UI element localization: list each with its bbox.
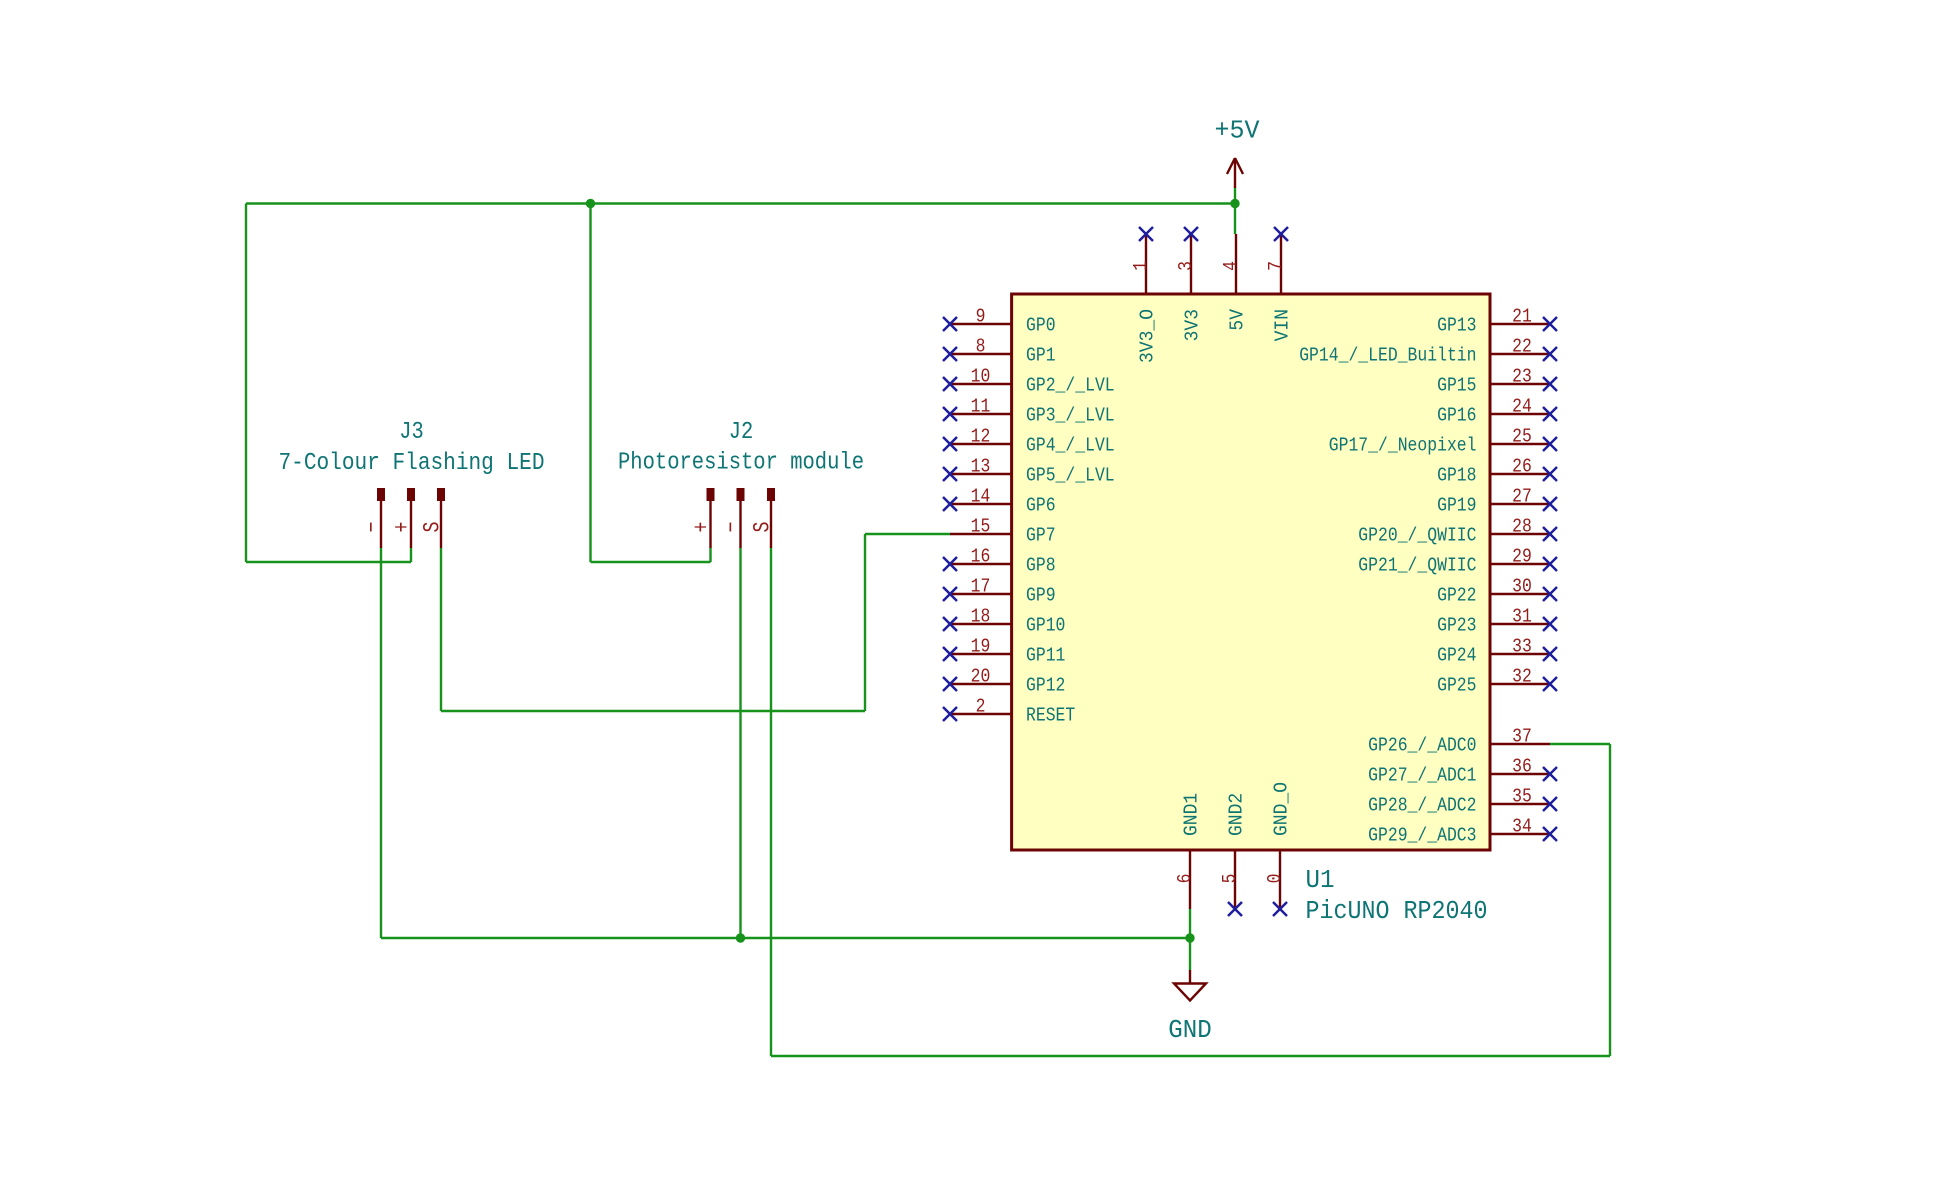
svg-text:32: 32: [1512, 666, 1532, 688]
svg-text:26: 26: [1512, 456, 1532, 478]
svg-text:6: 6: [1174, 874, 1196, 884]
svg-text:17: 17: [971, 576, 991, 598]
wire right vertical: [1609, 744, 1611, 1056]
svg-text:15: 15: [971, 516, 991, 538]
U1 pin 36 GP27_/_ADC1 (right lower): [1368, 756, 1557, 787]
op-amp U1 body rectangle PicUNO RP2040: [1012, 294, 1490, 850]
U1 pin 3 3V3 (top): [1175, 227, 1204, 341]
U1 pin 22 GP14_/_LED_Builtin (right): [1299, 336, 1557, 367]
junction GND1 on GND bus: [1185, 933, 1194, 942]
U1 pin 11 GP3_/_LVL (left): [943, 396, 1115, 427]
U1 pin 21 GP13 (right): [1437, 306, 1557, 337]
svg-text:GP10: GP10: [1026, 615, 1065, 637]
svg-text:5: 5: [1219, 874, 1241, 884]
U1 pin 12 GP4_/_LVL (left): [943, 426, 1115, 457]
U1 pin 15 GP7 (left): [950, 516, 1056, 547]
ground symbol GND: [1174, 970, 1206, 1001]
svg-text:GP22: GP22: [1437, 585, 1476, 607]
svg-text:24: 24: [1512, 396, 1532, 418]
wire GND bus horizontal: [381, 937, 1190, 939]
junction at 5V pin: [1230, 199, 1239, 208]
wire J3 S vertical: [440, 548, 442, 711]
svg-text:GP6: GP6: [1026, 495, 1056, 517]
svg-text:21: 21: [1512, 306, 1532, 328]
svg-text:3V3_O: 3V3_O: [1137, 309, 1159, 363]
U1 pin 28 GP20_/_QWIIC (right): [1358, 516, 1557, 547]
U1 pin 17 GP9 (left): [943, 576, 1056, 607]
U1 pin 30 GP22 (right): [1437, 576, 1557, 607]
svg-text:GP14_/_LED_Builtin: GP14_/_LED_Builtin: [1299, 345, 1476, 367]
svg-text:10: 10: [971, 366, 991, 388]
svg-text:11: 11: [971, 396, 991, 418]
svg-text:GP26_/_ADC0: GP26_/_ADC0: [1368, 735, 1476, 757]
svg-text:GP20_/_QWIIC: GP20_/_QWIIC: [1358, 525, 1476, 547]
U1 pin 31 GP23 (right): [1437, 606, 1557, 637]
svg-text:GND1: GND1: [1181, 793, 1203, 836]
svg-text:22: 22: [1512, 336, 1532, 358]
svg-text:3: 3: [1175, 261, 1197, 271]
svg-text:37: 37: [1512, 726, 1532, 748]
svg-text:3V3: 3V3: [1182, 309, 1204, 341]
svg-text:28: 28: [1512, 516, 1532, 538]
svg-text:23: 23: [1512, 366, 1532, 388]
U1 pin 13 GP5_/_LVL (left): [943, 456, 1115, 487]
svg-text:1: 1: [1130, 261, 1152, 271]
svg-text:7-Colour Flashing LED: 7-Colour Flashing LED: [279, 450, 545, 477]
connector J2 pin +: [689, 488, 715, 548]
svg-text:S: S: [750, 522, 776, 533]
svg-text:35: 35: [1512, 786, 1532, 808]
U1 pin 20 GP12 (left): [943, 666, 1065, 697]
connector J3 pin +: [390, 488, 416, 548]
wire J2+ stub: [709, 548, 711, 562]
U1 pin 7 VIN (top): [1265, 227, 1294, 341]
U1 pin 25 GP17_/_Neopixel (right): [1329, 426, 1557, 457]
U1 pin 35 GP28_/_ADC2 (right lower): [1368, 786, 1557, 817]
svg-text:18: 18: [971, 606, 991, 628]
svg-text:GP21_/_QWIIC: GP21_/_QWIIC: [1358, 555, 1476, 577]
junction J2- on GND bus: [736, 933, 745, 942]
svg-text:33: 33: [1512, 636, 1532, 658]
svg-text:0: 0: [1264, 874, 1286, 884]
svg-text:VIN: VIN: [1272, 309, 1294, 341]
U1 pin 1 3V3_O (top): [1130, 227, 1159, 363]
U1 pin 24 GP16 (right): [1437, 396, 1557, 427]
U1 pin 4 5V (top): [1220, 234, 1249, 331]
U1 pin 0 GND_O (bottom): [1264, 782, 1293, 916]
svg-text:GP1: GP1: [1026, 345, 1056, 367]
svg-text:27: 27: [1512, 486, 1532, 508]
svg-text:13: 13: [971, 456, 991, 478]
svg-text:19: 19: [971, 636, 991, 658]
svg-text:30: 30: [1512, 576, 1532, 598]
svg-text:34: 34: [1512, 816, 1532, 838]
U1 pin 26 GP18 (right): [1437, 456, 1557, 487]
svg-text:J3: J3: [399, 419, 424, 446]
svg-text:GP2_/_LVL: GP2_/_LVL: [1026, 375, 1115, 397]
U1 pin 19 GP11 (left): [943, 636, 1065, 667]
svg-text:GP8: GP8: [1026, 555, 1056, 577]
U1 pin 32 GP25 (right): [1437, 666, 1557, 697]
svg-text:GP5_/_LVL: GP5_/_LVL: [1026, 465, 1115, 487]
U1 pin 23 GP15 (right): [1437, 366, 1557, 397]
svg-text:GP25: GP25: [1437, 675, 1476, 697]
svg-text:GP9: GP9: [1026, 585, 1056, 607]
wire +5V to 5V pin: [1234, 188, 1236, 234]
svg-text:GND: GND: [1168, 1016, 1212, 1045]
connector J3 pin −: [360, 488, 386, 548]
U1 pin 29 GP21_/_QWIIC (right): [1358, 546, 1557, 577]
svg-text:GND2: GND2: [1226, 793, 1248, 836]
svg-text:7: 7: [1265, 261, 1287, 271]
svg-text:−: −: [360, 522, 386, 533]
power symbol +5V: [1227, 158, 1243, 188]
wire bottom horizontal: [771, 1055, 1610, 1057]
svg-text:36: 36: [1512, 756, 1532, 778]
U1 pin 34 GP29_/_ADC3 (right lower): [1368, 816, 1557, 847]
svg-text:GP4_/_LVL: GP4_/_LVL: [1026, 435, 1115, 457]
connector J2 pin S: [750, 488, 776, 548]
U1 pin 5 GND2 (bottom): [1219, 793, 1248, 916]
svg-text:20: 20: [971, 666, 991, 688]
connector J3 pin S: [420, 488, 446, 548]
svg-text:29: 29: [1512, 546, 1532, 568]
svg-text:GP23: GP23: [1437, 615, 1476, 637]
svg-text:GP15: GP15: [1437, 375, 1476, 397]
U1 pin 14 GP6 (left): [943, 486, 1056, 517]
svg-text:GND_O: GND_O: [1271, 782, 1293, 836]
svg-text:GP19: GP19: [1437, 495, 1476, 517]
U1 pin 8 GP1 (left): [943, 336, 1056, 367]
U1 pin 10 GP2_/_LVL (left): [943, 366, 1115, 397]
svg-text:Photoresistor module: Photoresistor module: [618, 450, 864, 477]
svg-text:J2: J2: [729, 419, 754, 446]
wire J3- vertical: [380, 548, 382, 938]
svg-text:GP29_/_ADC3: GP29_/_ADC3: [1368, 825, 1476, 847]
svg-text:GP11: GP11: [1026, 645, 1065, 667]
svg-text:GP27_/_ADC1: GP27_/_ADC1: [1368, 765, 1476, 787]
svg-text:−: −: [719, 522, 745, 533]
svg-text:5V: 5V: [1227, 308, 1249, 330]
svg-text:GP7: GP7: [1026, 525, 1056, 547]
svg-text:9: 9: [976, 306, 986, 328]
svg-text:GP28_/_ADC2: GP28_/_ADC2: [1368, 795, 1476, 817]
wire GP26 horizontal: [1550, 743, 1610, 745]
svg-text:GP17_/_Neopixel: GP17_/_Neopixel: [1329, 435, 1477, 457]
wire J2- vertical: [739, 548, 741, 938]
U1 pin 2 RESET (left): [943, 696, 1075, 727]
U1 pin 9 GP0 (left): [943, 306, 1056, 337]
U1 pin 6 GND1 (bottom): [1174, 793, 1203, 909]
wire J2 S vertical: [770, 548, 772, 1056]
wire J2+ horizontal: [591, 561, 711, 563]
U1 pin 16 GP8 (left): [943, 546, 1056, 577]
U1 pin 18 GP10 (left): [943, 606, 1065, 637]
svg-text:GP24: GP24: [1437, 645, 1476, 667]
U1 pin 33 GP24 (right): [1437, 636, 1557, 667]
svg-text:S: S: [420, 522, 446, 533]
svg-text:RESET: RESET: [1026, 705, 1075, 727]
wire left vertical to J3+: [245, 204, 247, 563]
svg-text:PicUNO RP2040: PicUNO RP2040: [1306, 897, 1488, 926]
wire J3+ stub: [410, 548, 412, 562]
svg-text:25: 25: [1512, 426, 1532, 448]
U1 pin 27 GP19 (right): [1437, 486, 1557, 517]
wire +5V top horizontal: [246, 202, 1235, 204]
svg-text:14: 14: [971, 486, 991, 508]
svg-text:GP18: GP18: [1437, 465, 1476, 487]
svg-text:GP16: GP16: [1437, 405, 1476, 427]
wire GP7 horizontal: [865, 533, 950, 535]
svg-text:GP12: GP12: [1026, 675, 1065, 697]
connector J2 pin −: [719, 488, 745, 548]
U1 pin 37 GP26_/_ADC0 (right lower): [1368, 726, 1550, 757]
svg-text:+: +: [689, 522, 715, 533]
svg-text:GP0: GP0: [1026, 315, 1056, 337]
junction at +5V branch: [586, 199, 595, 208]
svg-text:31: 31: [1512, 606, 1532, 628]
svg-text:+: +: [390, 522, 416, 533]
svg-text:U1: U1: [1306, 866, 1335, 895]
svg-text:8: 8: [976, 336, 986, 358]
svg-text:16: 16: [971, 546, 991, 568]
svg-text:2: 2: [976, 696, 986, 718]
svg-text:+5V: +5V: [1215, 117, 1261, 146]
wire GND1 stub: [1189, 909, 1191, 970]
wire GP7 vertical: [864, 534, 866, 711]
svg-text:4: 4: [1220, 261, 1242, 271]
wire J3+ horizontal: [246, 561, 411, 563]
svg-text:12: 12: [971, 426, 991, 448]
svg-text:GP3_/_LVL: GP3_/_LVL: [1026, 405, 1115, 427]
svg-text:GP13: GP13: [1437, 315, 1476, 337]
wire J3 S horizontal: [441, 710, 865, 712]
wire J2+ vertical: [589, 204, 591, 563]
